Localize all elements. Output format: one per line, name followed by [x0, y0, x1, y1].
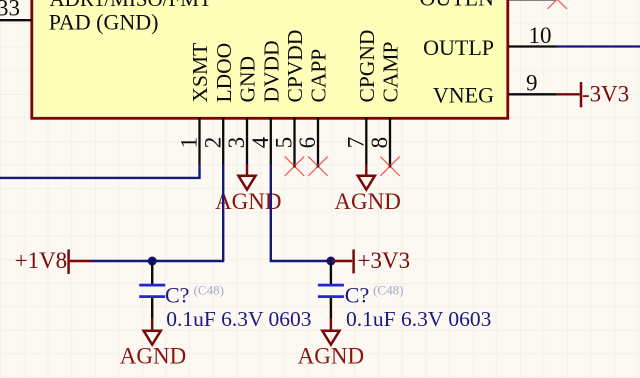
ground AGND triangle pin 3 — [238, 176, 255, 190]
svg-text:9: 9 — [526, 71, 538, 96]
svg-text:3: 3 — [224, 137, 249, 149]
svg-text:5: 5 — [272, 137, 297, 149]
svg-text:(C48): (C48) — [373, 283, 403, 298]
svg-text:2: 2 — [200, 137, 225, 149]
svg-text:6: 6 — [295, 137, 320, 149]
svg-text:8: 8 — [367, 137, 392, 149]
wire pin 1 to left edge — [0, 164, 200, 178]
wire pin 4 down to +3V3 rail — [270, 164, 331, 261]
ground AGND triangle pin 7 — [358, 176, 375, 190]
power port +1V8 bar — [67, 249, 70, 274]
svg-text:AGND: AGND — [298, 343, 364, 368]
ground AGND triangle C2 — [322, 331, 339, 345]
power port +1V8 stem — [70, 260, 92, 262]
no-connect X on pin 8 — [380, 157, 399, 176]
svg-text:XSMT: XSMT — [188, 43, 212, 103]
no-connect X on OUTLN — [548, 0, 567, 9]
svg-text:7: 7 — [344, 137, 369, 149]
power port +3V3 stem — [332, 260, 352, 262]
junction node +3V3 rail — [326, 257, 335, 266]
IC U? DAC chip body — [32, 0, 508, 118]
pin 3 wire — [246, 117, 248, 165]
svg-text:-3V3: -3V3 — [582, 81, 629, 106]
no-connect X on pin 5 — [285, 157, 304, 176]
capacitor C1 bottom lead — [151, 298, 153, 319]
pin 7 wire — [365, 117, 367, 165]
capacitor C2 bottom plate — [318, 295, 344, 298]
pin 9 wire — [509, 93, 557, 95]
svg-text:(C48): (C48) — [194, 283, 224, 298]
svg-text:0.1uF 6.3V 0603: 0.1uF 6.3V 0603 — [166, 307, 311, 331]
svg-text:CPVDD: CPVDD — [283, 30, 307, 103]
svg-text:PAD (GND): PAD (GND) — [49, 10, 159, 35]
svg-text:1: 1 — [177, 137, 202, 149]
pin 2 wire — [222, 117, 224, 165]
capacitor C2 top lead — [330, 263, 332, 284]
power port +3V3 bar — [352, 249, 355, 273]
capacitor C1 top lead — [151, 263, 153, 284]
wire +1V8 rail — [91, 260, 224, 262]
wire OUTLP net — [557, 45, 640, 47]
svg-text:33: 33 — [0, 0, 20, 21]
svg-text:LDOO: LDOO — [212, 43, 236, 103]
pin 10 wire — [509, 45, 557, 47]
svg-text:AGND: AGND — [334, 189, 400, 214]
power port -3V3 bar — [580, 82, 583, 107]
ground AGND stem pin 7 — [365, 164, 367, 175]
svg-text:4: 4 — [248, 136, 273, 148]
pin 6 wire — [317, 117, 319, 165]
pin OUTLN wire — [509, 0, 556, 1]
pin 33 wire — [0, 19, 32, 21]
capacitor C2 top plate — [318, 284, 344, 287]
capacitor C1 bottom plate — [139, 295, 165, 298]
pin 4 wire — [270, 117, 272, 165]
wire pin 2 down to +1V8 rail — [222, 164, 224, 261]
ground AGND triangle C1 — [144, 331, 161, 345]
svg-text:C?: C? — [165, 283, 189, 308]
junction node +1V8 rail — [148, 257, 157, 266]
capacitor C2 bottom lead — [330, 298, 332, 319]
svg-text:OUTLP: OUTLP — [423, 35, 494, 60]
no-connect X on pin 6 — [308, 157, 327, 176]
svg-text:C?: C? — [345, 283, 369, 308]
svg-text:+3V3: +3V3 — [358, 248, 411, 273]
pin 1 wire — [198, 117, 200, 165]
power port -3V3 stem — [557, 93, 580, 95]
svg-text:0.1uF 6.3V 0603: 0.1uF 6.3V 0603 — [346, 307, 491, 331]
svg-text:DVDD: DVDD — [260, 40, 284, 102]
ground AGND stem pin 3 — [246, 164, 248, 175]
svg-text:CPGND: CPGND — [355, 30, 379, 103]
svg-text:VNEG: VNEG — [433, 83, 494, 108]
ground AGND stem C2 — [330, 318, 332, 330]
svg-text:CAPP: CAPP — [307, 49, 331, 103]
capacitor C1 top plate — [139, 284, 165, 287]
svg-text:10: 10 — [529, 23, 552, 48]
ground AGND stem C1 — [151, 318, 153, 330]
svg-text:+1V8: +1V8 — [15, 248, 68, 273]
svg-text:AGND: AGND — [120, 343, 186, 368]
pin 5 wire — [293, 117, 295, 165]
svg-text:CAMP: CAMP — [379, 42, 403, 103]
svg-text:OUTLN: OUTLN — [419, 0, 494, 11]
pin 8 wire — [389, 117, 391, 165]
svg-text:GND: GND — [236, 56, 260, 103]
